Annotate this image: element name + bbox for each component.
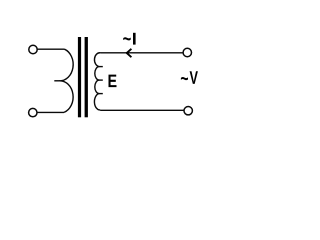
primary winding crossover tick [54, 80, 60, 82]
label ~I letter I [133, 33, 136, 45]
terminal circle bottom-left [29, 108, 37, 116]
terminal circle top-left [29, 45, 37, 53]
wire top-right [100, 52, 183, 54]
secondary crossover tick 3 [99, 93, 103, 95]
label ~V letter V [190, 71, 198, 84]
primary winding L1 [60, 49, 74, 112]
label ~V tilde [181, 77, 188, 80]
secondary crossover tick 2 [99, 79, 103, 81]
secondary crossover tick 1 [99, 66, 103, 68]
terminal circle bottom-right [184, 107, 192, 115]
core bar right [85, 37, 88, 117]
wire bottom-left [37, 111, 64, 113]
wire bottom-right [100, 109, 184, 111]
label ~I tilde [123, 37, 131, 40]
terminal circle top-right [183, 48, 191, 56]
label E [109, 75, 117, 88]
secondary winding L2 [94, 53, 100, 110]
current arrowhead [127, 49, 132, 57]
wire top-left [37, 48, 64, 50]
core bar left [78, 37, 81, 117]
